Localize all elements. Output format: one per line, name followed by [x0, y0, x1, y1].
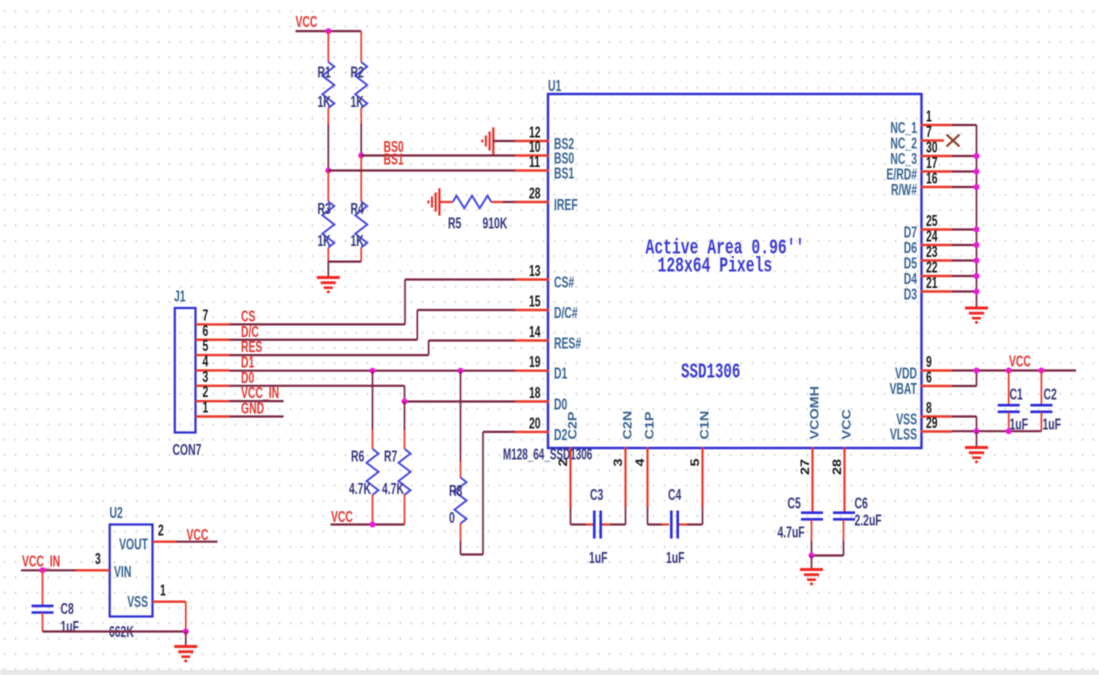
- wire R/W# to bus: [952, 186, 977, 188]
- J1 pin 6 net label D/C: [196, 322, 260, 341]
- U2 pin 2 VOUT: [119, 521, 176, 553]
- svg-text:CON7: CON7: [173, 441, 202, 459]
- svg-text:18: 18: [529, 384, 541, 402]
- svg-text:0: 0: [449, 509, 455, 527]
- node junction bus/R/W#: [974, 184, 980, 190]
- resistor R6 4.7K: [349, 371, 379, 525]
- svg-text:4.7uF: 4.7uF: [778, 523, 805, 541]
- wire C2P stub down: [570, 507, 572, 525]
- node junction VDD/C2: [1038, 368, 1044, 374]
- wire RES J1 to U1 RES#: [230, 341, 516, 356]
- U1 pin 13 CS#: [515, 262, 575, 291]
- svg-text:U2: U2: [110, 504, 123, 522]
- svg-text:1uF: 1uF: [61, 618, 79, 636]
- wire NC_3 to bus: [952, 155, 977, 157]
- wire stub to ground R3: [327, 262, 329, 278]
- wire VBAT up to VDD rail: [952, 371, 977, 387]
- svg-text:1: 1: [203, 398, 209, 416]
- node junction D1/R8: [458, 368, 464, 374]
- svg-text:VCC: VCC: [331, 508, 353, 526]
- svg-text:28: 28: [830, 459, 843, 475]
- resistor R7 4.7K: [382, 402, 411, 525]
- svg-text:D3: D3: [904, 285, 918, 303]
- svg-text:VBAT: VBAT: [889, 380, 917, 398]
- wire ground to R5: [439, 201, 452, 203]
- capacitor C4 1uF: [648, 486, 703, 567]
- U1 pin 21 D3: [904, 274, 952, 303]
- resistor R3 1K: [318, 200, 335, 262]
- svg-text:1uF: 1uF: [666, 549, 684, 567]
- wire R1 to BS1: [327, 124, 329, 171]
- U1 pin 18 D0: [515, 384, 568, 413]
- wire R3/R4 bottom join: [328, 261, 361, 263]
- U1 pin 22 D4: [904, 258, 952, 287]
- svg-text:C1N: C1N: [698, 411, 711, 440]
- U1 pin 12 BS2: [515, 123, 575, 152]
- svg-text:1K: 1K: [318, 232, 331, 250]
- U1 text 128x64 Pixels: [658, 255, 773, 278]
- U1 pin 29 VLSS: [890, 414, 952, 443]
- node junction VDD/VBAT: [974, 368, 980, 374]
- svg-text:C3: C3: [590, 486, 604, 504]
- wire R8 to D2 riser: [461, 432, 484, 555]
- J1 pin 4 net label D1: [196, 352, 255, 371]
- wire stub to ground C5: [811, 556, 813, 570]
- svg-text:IREF: IREF: [554, 196, 578, 214]
- node junction bus/NC_3: [974, 153, 980, 159]
- wire C1P stub down: [647, 507, 649, 525]
- svg-text:C1: C1: [1010, 385, 1024, 403]
- svg-text:M128_64_SSD1306: M128_64_SSD1306: [503, 445, 592, 463]
- U1 pin 28 IREF: [515, 184, 578, 213]
- resistor R2 1K: [351, 31, 368, 123]
- node junction C1 bottom: [1006, 428, 1012, 434]
- node junction R6/VCC rail: [370, 522, 376, 528]
- wire VCC_IN stub at J1: [230, 400, 284, 402]
- U1 pin 24 D6: [904, 227, 952, 256]
- node junction VSS/ground rail: [183, 629, 189, 635]
- svg-text:RES#: RES#: [554, 334, 582, 352]
- J1 pin 7 net label CS: [196, 306, 256, 325]
- svg-text:CS#: CS#: [554, 273, 575, 291]
- wire D0 J1 to U1 D0: [230, 386, 516, 402]
- svg-text:2: 2: [556, 458, 569, 466]
- net label BS1: [384, 150, 405, 168]
- svg-text:R5: R5: [448, 214, 462, 232]
- svg-text:D1: D1: [554, 364, 568, 382]
- U1 pin 23 D5: [904, 243, 952, 272]
- wire VSS down to VLSS: [952, 417, 977, 432]
- svg-text:6: 6: [926, 368, 932, 386]
- capacitor C1 1uF: [998, 371, 1028, 434]
- svg-text:C2P: C2P: [566, 411, 579, 439]
- svg-text:28: 28: [529, 184, 541, 202]
- svg-text:13: 13: [529, 262, 541, 280]
- svg-text:29: 29: [926, 414, 938, 432]
- svg-text:3: 3: [95, 550, 101, 568]
- wire right NC bus vertical: [976, 125, 978, 308]
- node junction VLSS/ground: [974, 428, 980, 434]
- ground below U2: [174, 647, 197, 661]
- wire stub to ground VSS: [976, 431, 978, 447]
- svg-text:VCC: VCC: [296, 13, 318, 31]
- svg-text:1: 1: [160, 581, 166, 599]
- U1 pin 15 D/C#: [515, 292, 579, 321]
- svg-text:2: 2: [158, 521, 164, 539]
- svg-text:R3: R3: [318, 200, 332, 218]
- J1 pin 5 net label RES: [196, 337, 263, 356]
- wire VCC_IN to VIN: [21, 569, 76, 571]
- svg-text:3: 3: [611, 458, 624, 466]
- IC U1 SSD1306 body: [548, 77, 922, 448]
- svg-text:SSD1306: SSD1306: [681, 361, 740, 385]
- node junction bus/D5: [974, 258, 980, 264]
- U1 pin 9 VDD: [895, 353, 952, 382]
- ground at BS2 (rotated): [482, 127, 493, 154]
- wire GND stub at J1: [230, 415, 284, 417]
- node junction C5/ground: [809, 553, 815, 559]
- svg-text:R7: R7: [384, 447, 397, 465]
- no-connect X on NC_2: [947, 135, 960, 147]
- svg-text:4.7K: 4.7K: [382, 480, 404, 498]
- svg-text:11: 11: [529, 153, 540, 171]
- U1 pin 8 VSS: [896, 399, 952, 428]
- svg-text:VCC: VCC: [1009, 352, 1031, 370]
- wire E/RD# to bus: [952, 170, 977, 172]
- svg-text:VCC_IN: VCC_IN: [22, 552, 60, 570]
- resistor R4 1K: [351, 200, 368, 262]
- node junction D0/R7: [402, 399, 408, 405]
- connector J1 CON7 body: [174, 287, 196, 432]
- svg-text:5: 5: [688, 458, 701, 466]
- wire BS1 R1 to U1: [328, 169, 515, 171]
- U1 pin 5 C1N: [688, 411, 711, 507]
- wire D/C J1 to U1 D/C#: [230, 310, 516, 340]
- svg-text:U1: U1: [548, 77, 562, 95]
- wire CS J1 to U1 CS#: [230, 280, 516, 325]
- svg-text:1uF: 1uF: [589, 549, 607, 567]
- svg-text:14: 14: [529, 323, 541, 341]
- U2 pin 1 VSS: [127, 581, 186, 631]
- wire C2N stub down: [625, 507, 627, 525]
- node junction VCC/R1: [325, 28, 331, 34]
- U1 pin 30 NC_3: [890, 138, 952, 167]
- U1 pin 16 R/W#: [891, 169, 952, 198]
- svg-text:20: 20: [529, 414, 541, 432]
- svg-text:1uF: 1uF: [1043, 415, 1061, 433]
- U2 pin 3 VIN: [76, 550, 132, 581]
- svg-text:910K: 910K: [483, 214, 508, 232]
- net label BS0: [384, 138, 404, 156]
- regulator U2 body: [110, 504, 153, 617]
- svg-text:21: 21: [926, 274, 938, 292]
- capacitor C3 1uF: [571, 486, 626, 567]
- svg-text:1K: 1K: [318, 93, 331, 111]
- U1 pin 11 BS1: [515, 153, 575, 182]
- resistor R8 0: [449, 371, 467, 555]
- node junction BS0/R2: [358, 153, 364, 159]
- U1 pin 25 D7: [904, 212, 952, 241]
- wire stub to ground U2: [185, 632, 187, 647]
- U1 part name label: [503, 445, 592, 463]
- svg-text:4.7K: 4.7K: [349, 480, 371, 498]
- wire D5 to bus: [952, 259, 977, 261]
- wire VLSS/ground rail: [952, 430, 1041, 432]
- svg-text:C5: C5: [788, 494, 802, 512]
- wire VCC top rail: [296, 30, 362, 32]
- wire BS0 R2 to U1: [361, 154, 515, 156]
- node junction VCC_IN/C8: [40, 567, 46, 573]
- svg-text:VCC: VCC: [187, 526, 209, 544]
- wire VCOMH stub down: [811, 507, 813, 513]
- svg-text:C1P: C1P: [643, 411, 656, 439]
- node junction bus/D3: [974, 289, 980, 295]
- svg-text:19: 19: [529, 353, 541, 371]
- U1 pin 17 E/RD#: [886, 154, 952, 183]
- ground below VSS/VLSS: [965, 448, 988, 462]
- U1 pin 3 C2N: [611, 411, 634, 507]
- svg-text:2.2uF: 2.2uF: [855, 511, 882, 529]
- node junction bus/D6: [974, 242, 980, 248]
- node junction VDD/C1: [1006, 368, 1012, 374]
- ground below C5: [800, 570, 823, 584]
- U1 text Active Area: [646, 237, 805, 260]
- wire D7 to bus: [952, 228, 977, 230]
- svg-text:1K: 1K: [351, 93, 364, 111]
- svg-text:R6: R6: [351, 447, 365, 465]
- capacitor C5 4.7uF: [778, 494, 824, 555]
- svg-text:R4: R4: [351, 200, 365, 218]
- wire NC_1 to bus: [952, 124, 977, 126]
- U1 pin 14 RES#: [515, 323, 582, 352]
- U1 pin 1 NC_1: [890, 107, 952, 136]
- U1 pin 20 D2: [515, 414, 568, 443]
- svg-text:128x64 Pixels: 128x64 Pixels: [658, 255, 773, 278]
- svg-text:16: 16: [926, 169, 938, 187]
- U1 text SSD1306: [681, 361, 740, 385]
- J1 part label CON7: [173, 441, 202, 459]
- wire D3 to bus: [952, 290, 977, 292]
- wire C1N stub down: [702, 507, 704, 525]
- node junction bus/D7: [974, 227, 980, 233]
- power label VCC (U2): [187, 526, 209, 544]
- power label VCC (pullups): [331, 508, 353, 526]
- svg-text:VCOMH: VCOMH: [808, 386, 821, 440]
- svg-text:VLSS: VLSS: [890, 425, 917, 443]
- net label VCC_IN (U2): [22, 552, 60, 570]
- node junction D1/R6: [370, 368, 376, 374]
- wire C5/C6 bottom join: [812, 554, 844, 556]
- wire VOUT to VCC: [176, 541, 218, 543]
- wire R5 to IREF: [491, 201, 515, 203]
- node junction bus/E/RD#: [974, 169, 980, 175]
- capacitor C6 2.2uF: [833, 494, 882, 555]
- wire R1 to R3: [327, 171, 329, 202]
- svg-text:C2: C2: [1044, 385, 1057, 403]
- capacitor C8 1uF: [32, 570, 79, 635]
- ground below NC bus: [965, 308, 988, 322]
- J1 pin 1 net label GND: [196, 398, 265, 417]
- svg-text:D0: D0: [554, 395, 567, 413]
- svg-text:BS1: BS1: [554, 164, 575, 182]
- svg-text:27: 27: [798, 459, 811, 475]
- svg-text:R2: R2: [351, 63, 364, 81]
- resistor R1 1K: [318, 31, 335, 123]
- U1 pin 6 VBAT: [889, 368, 952, 397]
- svg-text:4: 4: [633, 458, 646, 467]
- wire VDD rail to VCC: [952, 369, 1076, 371]
- wire VCC rail below R6/R7: [331, 523, 405, 525]
- U2 part label 662K: [109, 623, 134, 641]
- U1 pin 28 VCC: [830, 408, 853, 507]
- svg-text:R1: R1: [318, 63, 332, 81]
- svg-text:15: 15: [529, 292, 541, 310]
- wire R2 to R4: [360, 156, 362, 202]
- svg-text:R/W#: R/W#: [891, 181, 917, 199]
- svg-text:VIN: VIN: [114, 563, 131, 581]
- capacitor C2 1uF: [1030, 371, 1061, 434]
- node junction BS1/R1: [325, 168, 331, 174]
- power label VCC (top): [296, 13, 318, 31]
- U1 pin 4 C1P: [633, 411, 656, 507]
- svg-text:C6: C6: [855, 494, 869, 512]
- power label VCC (right): [1009, 352, 1031, 370]
- J1 pin 2 net label VCC_IN: [196, 383, 280, 402]
- J1 pin 3 net label D0: [196, 368, 255, 387]
- svg-text:C8: C8: [61, 600, 75, 618]
- svg-text:1K: 1K: [351, 232, 364, 250]
- wire BS2 to U1: [493, 140, 515, 142]
- svg-text:C4: C4: [668, 486, 682, 504]
- resistor R5 910K: [448, 196, 508, 232]
- U1 pin 7 NC_2: [890, 123, 944, 152]
- svg-text:VSS: VSS: [127, 593, 148, 611]
- wire D6 to bus: [952, 244, 977, 246]
- wire D2 to U1: [483, 431, 515, 433]
- U1 pin 27 VCOMH: [798, 386, 821, 507]
- ground at R5 (rotated): [428, 188, 439, 215]
- ground below R3/R4: [317, 278, 340, 292]
- svg-text:R8: R8: [449, 482, 463, 500]
- node junction bus/D4: [974, 273, 980, 279]
- U1 pin 19 D1: [515, 353, 568, 382]
- U1 pin 2 C2P: [556, 411, 579, 507]
- wire D4 to bus: [952, 275, 977, 277]
- wire D1 J1 to U1 D1: [230, 370, 516, 372]
- svg-text:VOUT: VOUT: [119, 535, 148, 553]
- svg-text:J1: J1: [174, 287, 186, 305]
- svg-text:VCC: VCC: [840, 408, 853, 439]
- svg-text:BS1: BS1: [384, 150, 405, 168]
- svg-text:D/C#: D/C#: [554, 304, 578, 322]
- wire R2 to BS0: [360, 124, 362, 156]
- svg-text:C2N: C2N: [621, 411, 634, 440]
- U1 pin 10 BS0: [515, 138, 575, 167]
- wire C8 bottom rail: [43, 630, 186, 632]
